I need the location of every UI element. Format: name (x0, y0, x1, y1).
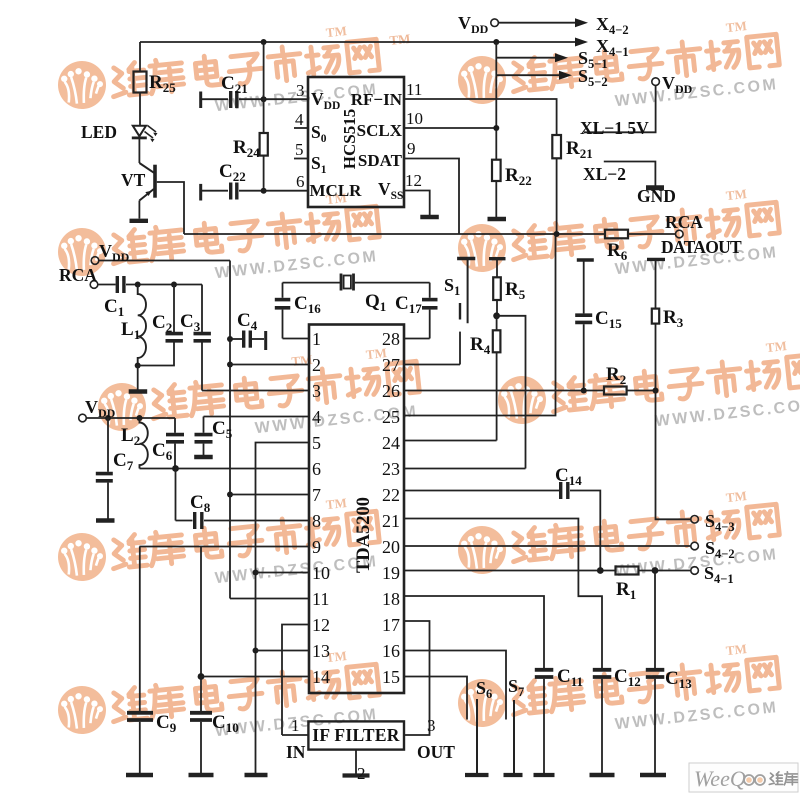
capacitor C6 (166, 418, 184, 469)
capacitor C7 (96, 418, 113, 519)
svg-text:10: 10 (406, 109, 423, 128)
node rail-C21 junction (261, 39, 267, 45)
ground below C7 (96, 518, 115, 522)
node pin3 junction (261, 96, 267, 102)
switch S1 (457, 259, 475, 365)
node R1-C13 junction (652, 567, 659, 574)
node C15 junction (581, 388, 587, 394)
terminal RCA right (676, 230, 684, 238)
svg-text:VT: VT (121, 170, 146, 190)
wire R25 top lead (139, 42, 141, 72)
node R21 junction (554, 231, 560, 237)
terminal VDD mid-left (91, 257, 99, 265)
wire long horizontal net (184, 233, 605, 235)
wire IF filter pin1 (282, 734, 308, 736)
switch S7 (513, 700, 515, 773)
capacitor C10 (190, 677, 212, 774)
svg-text:11: 11 (312, 589, 329, 609)
node TDA pin10 junction (253, 570, 259, 576)
wire X4-1 arrow (574, 41, 576, 43)
svg-text:15: 15 (382, 667, 400, 687)
wire DATAOUT to R3 (655, 259, 657, 308)
wire S5-1 stub (496, 57, 556, 59)
svg-text:RCA: RCA (59, 265, 97, 285)
svg-text:16: 16 (382, 641, 400, 661)
svg-text:4: 4 (295, 110, 304, 129)
svg-text:TM: TM (389, 31, 411, 48)
svg-text:IN: IN (286, 742, 306, 762)
wire L1-C2 bottom link (138, 343, 174, 366)
wire TDA pin25 riser (404, 234, 556, 416)
wire C8 riser (175, 469, 177, 521)
ground below C9 (126, 773, 153, 778)
svg-text:18: 18 (382, 589, 400, 609)
node pin6 junction (261, 188, 267, 194)
wire TDA pin9 (139, 546, 309, 548)
node R2-R3 junction (653, 388, 659, 394)
resistor R4 (493, 316, 501, 441)
resistor R5 (489, 259, 506, 316)
svg-text:WeeQ: WeeQ (694, 766, 746, 791)
svg-text:OUT: OUT (417, 742, 455, 762)
wire R21 bottom to long net (556, 158, 558, 234)
TDA pin numbers (312, 329, 400, 687)
wire TDA pin6 (176, 468, 310, 470)
svg-text:20: 20 (382, 537, 400, 557)
terminal RCA left (90, 281, 98, 289)
LED D1 (132, 126, 158, 143)
terminal S4-2 (691, 542, 699, 550)
svg-text:3: 3 (296, 81, 305, 100)
svg-text:25: 25 (382, 407, 400, 427)
node rail-S5 junction (493, 39, 499, 45)
capacitor C21 (201, 91, 308, 108)
svg-text:MCLR: MCLR (310, 181, 363, 200)
terminal VDD lower-left (79, 414, 87, 422)
wire R22 to ground (495, 181, 497, 217)
svg-text:9: 9 (312, 537, 321, 557)
wire R3 to R2 node (655, 324, 657, 391)
wire S5-2 stub (496, 74, 560, 76)
capacitor C11 (535, 670, 554, 773)
node TDA pin7 junction (227, 492, 233, 498)
svg-text:RCA: RCA (665, 212, 703, 232)
wire TDA pin18 to C11 (404, 596, 544, 668)
switch S6 (476, 699, 478, 773)
capacitor C4 (230, 331, 266, 351)
wire R24 to C22 net (263, 156, 265, 191)
svg-text:1: 1 (312, 329, 321, 349)
svg-text:11: 11 (406, 80, 422, 99)
wire HCS pin9 SDAT (404, 159, 459, 235)
wire HCS pin11 RF-IN to R21 (404, 99, 557, 135)
wire TDA pin26 to R2 (404, 390, 604, 392)
svg-text:XL−1 5V: XL−1 5V (580, 118, 649, 138)
capacitor C16 (275, 283, 291, 339)
node C1-L1 junction (135, 282, 141, 288)
terminal S4-1 (691, 567, 699, 575)
svg-text:26: 26 (382, 381, 400, 401)
svg-text:RF−IN: RF−IN (351, 90, 403, 109)
svg-text:5: 5 (312, 433, 321, 453)
svg-text:21: 21 (382, 511, 400, 531)
transistor VT (139, 163, 155, 219)
wire TDA pin10 (256, 572, 310, 574)
svg-text:14: 14 (312, 667, 330, 687)
svg-text:SDAT: SDAT (358, 151, 403, 170)
wire S1 to TDA pin27 (404, 364, 460, 366)
node C2 top junction (171, 282, 177, 288)
wire TDA pin2 (230, 364, 309, 366)
wire IF filter pin3 to TDA pin17 (404, 621, 430, 735)
wire C3 to TDA pin3 (202, 390, 309, 392)
resistor R3 (652, 309, 659, 324)
svg-text:13: 13 (312, 641, 330, 661)
svg-text:XL−2: XL−2 (583, 164, 626, 184)
capacitor C2 (166, 285, 183, 341)
inductor L2 (140, 418, 148, 469)
ground GND bar (646, 185, 664, 190)
wire S5 riser (495, 42, 497, 160)
svg-text:24: 24 (382, 433, 400, 453)
wire TDA pin12 to IF filter (282, 625, 309, 736)
terminal DATAOUT bar (647, 258, 665, 261)
wire HCS pin12 VSS (404, 191, 430, 216)
wire XL-2 line (604, 162, 656, 186)
svg-text:HCS515: HCS515 (340, 109, 359, 169)
capacitor C12 (593, 670, 612, 773)
svg-text:IF FILTER: IF FILTER (312, 725, 400, 745)
node R5-R4 junction (493, 312, 500, 319)
wire C21 junction riser (263, 42, 265, 133)
wire main riser x230 (229, 261, 231, 599)
capacitor C13 (646, 571, 665, 774)
svg-text:10: 10 (312, 563, 330, 583)
wire R5R4 branch to pin23 riser (497, 316, 526, 469)
svg-text:28: 28 (382, 329, 400, 349)
resistor R22 (492, 160, 501, 181)
inductor L1 (138, 285, 146, 366)
ground below S7 (504, 773, 523, 777)
wire pin9 to pin14 riser (200, 547, 202, 677)
ground below S6 (465, 773, 489, 777)
wire VT base to long net (157, 182, 184, 234)
wire VDD2 row (86, 417, 175, 419)
capacitor C3 (194, 285, 211, 391)
capacitor C1 (117, 276, 202, 293)
ground below C11 (534, 773, 555, 777)
resistor R24 (260, 133, 268, 156)
wire L1 to ground (137, 366, 139, 390)
svg-text:19: 19 (382, 563, 400, 583)
node TDA pin14 junction (198, 673, 205, 680)
svg-text:3: 3 (427, 716, 436, 735)
capacitor C15 (575, 260, 594, 391)
ground below R22 (488, 217, 507, 221)
terminal VDD right (652, 78, 660, 86)
op-amp U2 TDA5200 box (309, 325, 404, 694)
wire HCS pin5 stub (294, 158, 308, 160)
node C4 branch junction (227, 336, 233, 342)
ground below pin5 riser (245, 773, 268, 778)
wire TDA pin4 (204, 416, 310, 418)
wire top supply rail (140, 41, 581, 43)
wire TDA pin21 to C12 (404, 519, 602, 669)
node C7 junction (105, 415, 111, 421)
wire XL-1 5V line (584, 85, 656, 132)
node SCLX-R22 junction (493, 125, 499, 131)
wire IF filter pin2 (355, 750, 357, 774)
svg-text:SCLX: SCLX (357, 121, 403, 140)
resistor R21 (552, 135, 561, 158)
node C6 bottom junction (172, 465, 179, 472)
wire TDA pin5 riser (256, 443, 310, 774)
op-amp U1 HCS515 box (308, 77, 404, 207)
svg-text:LED: LED (81, 122, 117, 142)
ground below L1 (129, 389, 148, 393)
capacitor C14 (561, 482, 601, 571)
wire TDA pin22 to C14 (404, 490, 559, 492)
wire HCS pin4 stub (294, 127, 308, 129)
wire R4 to TDA pin24 (404, 440, 497, 442)
svg-text:23: 23 (382, 459, 400, 479)
wire R6 to RCA (628, 233, 675, 235)
wire VDD to main riser (99, 260, 230, 262)
wire TDA pin23 (404, 468, 526, 470)
wire TDA pin19 to R1 (404, 570, 616, 572)
svg-text:12: 12 (405, 171, 422, 190)
svg-text:4: 4 (312, 407, 321, 427)
ground below C5 (194, 455, 213, 459)
terminal S4-3 (691, 516, 699, 524)
svg-text:6: 6 (312, 459, 321, 479)
node L1 bottom junction (135, 363, 141, 369)
ground below C13 (640, 773, 666, 778)
resistor R1 (616, 567, 639, 575)
svg-text:1: 1 (291, 716, 300, 735)
wire TDA pin7 (230, 494, 309, 496)
resistor R25 (134, 72, 147, 93)
svg-text:12: 12 (312, 615, 330, 635)
wire C17 to TDA pin28 (404, 338, 430, 340)
wire C16 to TDA pin1 (283, 338, 310, 340)
capacitor C17 (422, 283, 438, 339)
wire R2 node to S4-3 (656, 391, 691, 520)
wire TDA pin15 to S6 (404, 677, 467, 720)
svg-text:7: 7 (312, 485, 321, 505)
svg-text:6: 6 (296, 172, 305, 191)
capacitor C9 (127, 547, 153, 774)
svg-text:2: 2 (312, 355, 321, 375)
svg-text:22: 22 (382, 485, 400, 505)
wire TDA pin20 to S4-2 (404, 545, 691, 547)
node TDA pin2 junction (227, 362, 233, 368)
resistor R6 (605, 230, 628, 239)
svg-text:TDA5200: TDA5200 (354, 497, 374, 573)
ground below IF filter (343, 773, 370, 777)
wire L2 to C6 node (140, 468, 176, 470)
svg-text:27: 27 (382, 355, 400, 375)
svg-text:17: 17 (382, 615, 400, 635)
wire TDA pin14 (201, 676, 309, 678)
svg-text:9: 9 (407, 139, 416, 158)
wire R2 to R3 node (627, 390, 656, 392)
terminal VDD top (491, 19, 499, 27)
capacitor C8 (176, 512, 310, 529)
wire R1 to S4-1 (639, 570, 691, 572)
wire HCS pin10 SCLX (404, 127, 496, 129)
ground below VT (130, 219, 149, 223)
svg-text:DATAOUT: DATAOUT (661, 237, 742, 257)
op-amp U3 IF FILTER box (308, 721, 404, 749)
ground below C10 (189, 773, 214, 778)
wire Q1 top link (283, 282, 341, 284)
resistor R2 (604, 387, 627, 395)
capacitor C5 (195, 417, 213, 456)
wire R25 to LED (139, 93, 141, 126)
wire TDA pin13 (256, 650, 310, 652)
node L2 junction (137, 415, 143, 421)
wire TDA pin11 (230, 598, 309, 600)
svg-text:2: 2 (357, 764, 366, 783)
capacitor C22 (201, 183, 308, 201)
svg-text:GND: GND (637, 186, 676, 206)
crystal Q1 (341, 274, 430, 291)
ground below C12 (590, 773, 615, 778)
svg-text:3: 3 (312, 381, 321, 401)
wire LED to VT collector (138, 139, 140, 164)
ground below VSS (420, 215, 439, 219)
wire X4-2 row (499, 22, 576, 24)
node TDA pin13 junction (253, 648, 259, 654)
wire RCA to C1 (98, 284, 116, 286)
svg-text:8: 8 (312, 511, 321, 531)
wire TDA pin16 to S7 (404, 651, 506, 720)
node C14 junction (597, 567, 604, 574)
svg-text:5: 5 (295, 140, 304, 159)
